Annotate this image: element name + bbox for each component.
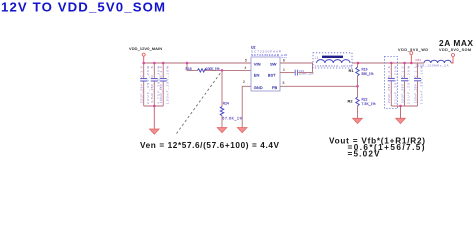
- wire C15 to SW: [298, 63, 312, 73]
- svg-text:Vout = Vfb*(1+R1/R2): Vout = Vfb*(1+R1/R2): [329, 137, 425, 146]
- wire EN node down: [221, 70, 223, 106]
- ground U2 GND pin: [237, 128, 247, 133]
- svg-text:C11: C11: [413, 66, 417, 77]
- svg-text:22UF_25V: 22UF_25V: [400, 83, 404, 103]
- annotation dashed pointer line: [177, 72, 222, 134]
- wire input cap bus: [144, 105, 164, 107]
- svg-text:56K_1%: 56K_1%: [362, 72, 374, 76]
- wire GND pin branch: [242, 86, 251, 127]
- svg-text:4.7UF_25V: 4.7UF_25V: [150, 83, 154, 103]
- node junction output rail: [357, 62, 413, 65]
- svg-text:Ven = 12*57.6/(57.6+100) = 4.4: Ven = 12*57.6/(57.6+100) = 4.4V: [140, 141, 280, 150]
- wire SW rail: [280, 62, 313, 64]
- svg-text:1: 1: [283, 68, 285, 72]
- power symbol VDD_5V0_WD: [398, 48, 428, 63]
- resistor R22 feedback bottom: [348, 97, 376, 118]
- svg-text:2: 2: [243, 80, 245, 84]
- wire bus to ground right: [400, 106, 402, 118]
- svg-text:C26: C26: [387, 66, 391, 77]
- capacitor C14: [159, 63, 169, 106]
- svg-text:R18: R18: [186, 67, 192, 71]
- svg-text:VDD_5V0_WD: VDD_5V0_WD: [398, 48, 428, 52]
- node junction output bus: [399, 105, 402, 108]
- wire FB1 to SOM: [451, 57, 453, 63]
- wire FB to divider: [280, 85, 358, 87]
- svg-text:4: 4: [245, 66, 247, 70]
- svg-text:57.6K_1%: 57.6K_1%: [223, 117, 243, 121]
- ferrite bead FB1: [416, 58, 452, 67]
- svg-text:R2: R2: [348, 99, 354, 104]
- wire R18 to EN pin: [205, 69, 252, 71]
- capacitor C13: [140, 63, 150, 106]
- svg-text:FB1: FB1: [416, 58, 422, 62]
- svg-text:22UF_25V_20%: 22UF_25V_20%: [394, 66, 398, 104]
- ground input caps: [150, 129, 160, 134]
- capacitor C15 bootstrap: [295, 69, 314, 76]
- svg-text:22UF_25V: 22UF_25V: [140, 83, 144, 103]
- node junction rail-caps: [142, 62, 188, 65]
- power symbol VDD_12V0_MAIN: [129, 47, 162, 63]
- node junction EN/R24: [221, 69, 224, 72]
- resistor R19 feedback top: [349, 63, 374, 97]
- svg-text:VIN: VIN: [254, 61, 261, 66]
- svg-text:100nF_25V_10%: 100nF_25V_10%: [165, 66, 169, 104]
- svg-text:220R_100MHz_2A: 220R_100MHz_2A: [416, 63, 449, 67]
- svg-text:C10: C10: [400, 66, 404, 77]
- svg-text:2A MAX: 2A MAX: [439, 38, 473, 48]
- svg-text:R24: R24: [223, 101, 229, 105]
- wire bus to ground: [153, 106, 155, 129]
- svg-text:C14: C14: [159, 66, 163, 77]
- svg-text:EN: EN: [254, 72, 260, 77]
- dashed box around C26: [385, 57, 398, 109]
- svg-text:104RB0618-2R2M: 104RB0618-2R2M: [315, 64, 353, 68]
- node junction input bus: [153, 105, 156, 108]
- capacitor C11: [413, 63, 423, 106]
- svg-text:C8: C8: [150, 66, 154, 77]
- ground R22: [353, 118, 363, 123]
- svg-text:7.5K_1%: 7.5K_1%: [362, 102, 376, 106]
- svg-text:C13: C13: [140, 66, 144, 77]
- svg-text:100nF_25V_10%: 100nF_25V_10%: [420, 66, 424, 104]
- ground output caps: [396, 118, 406, 123]
- wire output rail: [352, 62, 424, 64]
- svg-text:100nF_25V: 100nF_25V: [159, 83, 163, 103]
- capacitor C26: [387, 63, 397, 106]
- svg-text:L1: L1: [315, 56, 319, 60]
- inductor L1: [315, 56, 353, 68]
- svg-text:=5.02V: =5.02V: [348, 150, 381, 158]
- resistor R18: [186, 67, 220, 72]
- svg-text:6: 6: [283, 58, 285, 62]
- wire output cap bus: [391, 105, 417, 107]
- svg-text:BST: BST: [268, 72, 276, 77]
- svg-text:VDD_5V0_SOM: VDD_5V0_SOM: [439, 48, 471, 52]
- wire R24 to ground: [221, 116, 223, 128]
- ground R24: [217, 128, 227, 133]
- resistor R24: [220, 101, 242, 120]
- svg-text:R1: R1: [349, 68, 355, 73]
- wire BST: [280, 72, 295, 74]
- svg-text:GND: GND: [254, 85, 263, 90]
- svg-text:FB: FB: [272, 85, 277, 90]
- svg-text:22UF_25V_20%: 22UF_25V_20%: [407, 66, 411, 104]
- svg-text:SW: SW: [270, 61, 277, 66]
- svg-text:22UF_25V: 22UF_25V: [387, 83, 391, 103]
- svg-text:3: 3: [283, 81, 285, 85]
- dashed box around L1: [313, 53, 352, 68]
- svg-text:12V TO VDD_5V0_SOM: 12V TO VDD_5V0_SOM: [1, 0, 165, 14]
- power symbol VDD_5V0_SOM: [439, 48, 471, 56]
- op-amp U2 buck regulator: [251, 45, 287, 91]
- wire EN branch: [187, 63, 198, 70]
- svg-text:5: 5: [245, 58, 247, 62]
- svg-text:100nF_25V: 100nF_25V: [413, 83, 417, 103]
- wire main 12V rail: [144, 62, 251, 64]
- capacitor C8: [150, 63, 160, 106]
- capacitor C10: [400, 63, 410, 106]
- svg-text:VDD_12V0_MAIN: VDD_12V0_MAIN: [129, 47, 162, 51]
- node junction FB: [356, 85, 359, 88]
